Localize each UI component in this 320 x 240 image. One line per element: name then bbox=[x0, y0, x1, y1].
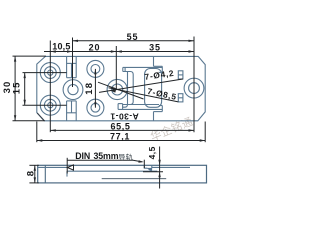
clip bottom connector to plate bbox=[154, 112, 163, 121]
middle column lower cell bbox=[67, 101, 77, 121]
side view ledge right bbox=[152, 166, 190, 168]
dim 65,5 bbox=[50, 121, 194, 131]
side view groove notch bbox=[144, 165, 147, 168]
svg-text:35: 35 bbox=[149, 42, 161, 52]
hole 18-top bbox=[87, 60, 104, 77]
svg-text:20: 20 bbox=[89, 43, 101, 53]
centerline hole TL horizontal bbox=[23, 72, 67, 74]
hole right bbox=[184, 78, 204, 98]
rail profile bottom line bbox=[102, 178, 167, 180]
svg-text:55: 55 bbox=[127, 32, 139, 42]
dim 8 bbox=[25, 165, 38, 183]
bottom-left chamfer dark overlay bbox=[37, 113, 44, 121]
dim 15 bbox=[12, 73, 26, 106]
middle circle bbox=[63, 80, 83, 100]
hole 18-bottom bbox=[87, 99, 104, 116]
extension plate left lower bbox=[36, 122, 38, 143]
dim 55 bbox=[73, 32, 195, 42]
clip bottom bar bbox=[118, 104, 162, 112]
svg-text:8: 8 bbox=[25, 170, 36, 176]
extension plate right lower bbox=[204, 122, 206, 143]
svg-text:65,5: 65,5 bbox=[111, 121, 131, 131]
leader line B short steep bbox=[98, 82, 144, 99]
hole top-left counterbore bbox=[40, 63, 60, 83]
dim row 10,5 / 20 / 35 bbox=[44, 42, 194, 53]
side view ledge left bbox=[38, 166, 67, 168]
centerline hole BL horizontal bbox=[23, 104, 67, 106]
svg-text:10,5: 10,5 bbox=[52, 42, 70, 52]
centerline left holes vertical bbox=[49, 41, 51, 133]
centerline right hole vertical bbox=[193, 37, 195, 133]
DIN leader: text shelf, arrow to notch, datum triangle bbox=[67, 158, 144, 174]
rail profile top line bbox=[67, 171, 157, 176]
extension line big circle bbox=[115, 46, 117, 90]
ladder pad lower bbox=[178, 94, 183, 102]
dim 18 bbox=[84, 69, 97, 108]
svg-text:4,5: 4,5 bbox=[147, 146, 157, 159]
svg-text:DIN 35mm: DIN 35mm bbox=[75, 151, 119, 161]
side view seam 1 bbox=[44, 165, 46, 183]
plate outline (top view) bbox=[37, 56, 205, 120]
watermark bbox=[149, 116, 193, 142]
svg-text:77,1: 77,1 bbox=[110, 132, 130, 142]
svg-text:15: 15 bbox=[12, 81, 23, 94]
dim 30 bbox=[2, 56, 46, 121]
ladder pad upper bbox=[178, 71, 183, 79]
clip web left line bbox=[123, 72, 128, 108]
extension line middle column bbox=[72, 38, 74, 88]
dim 4,5 bbox=[143, 146, 163, 188]
clip top bar bbox=[123, 66, 163, 104]
big center circle bbox=[107, 79, 127, 99]
svg-text:A-30-1: A-30-1 bbox=[110, 111, 139, 121]
side view body bbox=[38, 165, 207, 183]
hole bottom-left counterbore bbox=[40, 95, 60, 115]
clip rounded slot bbox=[145, 69, 162, 108]
svg-text:18: 18 bbox=[84, 82, 95, 95]
middle column upper cell bbox=[67, 56, 77, 77]
dim 77,1 bbox=[37, 132, 205, 142]
leader line A to top pad bbox=[99, 79, 183, 93]
clip top connector to plate bbox=[154, 56, 163, 66]
leader line C to bottom pad bbox=[109, 88, 179, 102]
